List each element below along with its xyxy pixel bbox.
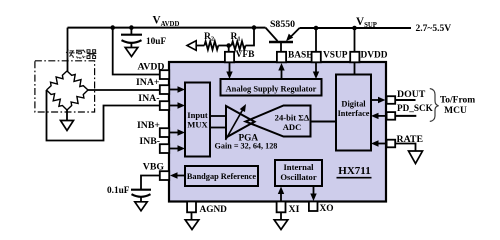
svg-text:VSUP: VSUP xyxy=(323,50,348,60)
svg-text:Gain = 32, 64, 128: Gain = 32, 64, 128 xyxy=(215,142,278,151)
svg-text:VFB: VFB xyxy=(236,50,256,60)
svg-text:Input: Input xyxy=(187,110,208,120)
wire bridge right node to INA+ xyxy=(88,89,160,91)
wire MUX to PGA (lower) xyxy=(210,127,226,129)
pin DOUT xyxy=(387,96,396,104)
pin INA+ xyxy=(160,85,169,94)
wire DOUT external xyxy=(395,99,415,101)
label sensor (chuan gan qi) xyxy=(66,50,68,59)
svg-text:0.1uF: 0.1uF xyxy=(107,186,130,196)
pin RATE xyxy=(387,140,396,148)
pin XI xyxy=(277,202,286,213)
wire rail to AVDD pin xyxy=(113,28,160,75)
arrow VSUP pin to regulator xyxy=(315,62,317,74)
svg-text:MCU: MCU xyxy=(444,106,467,116)
transistor Q1 base bar xyxy=(269,41,293,44)
Input MUX block xyxy=(185,83,210,157)
wire arrow to R2 xyxy=(196,45,204,47)
svg-text:XI: XI xyxy=(289,204,300,215)
resistor R2 xyxy=(204,41,218,49)
wire RATE external xyxy=(395,144,415,152)
wire base to BASE pin xyxy=(280,43,282,52)
arrow INA+ into MUX xyxy=(169,89,180,91)
svg-text:AVDD: AVDD xyxy=(137,61,164,72)
pin DVDD xyxy=(350,52,359,63)
PGA amplifier triangle xyxy=(226,106,255,138)
wire ADC to Digital Interface xyxy=(311,121,337,123)
junction rail/AVDD xyxy=(110,25,115,30)
svg-text:HX711: HX711 xyxy=(338,165,370,177)
svg-text:DVDD: DVDD xyxy=(361,50,388,60)
junction rail/DVDD xyxy=(352,26,357,31)
XI ground stub xyxy=(280,212,282,220)
pin VSUP xyxy=(312,52,321,63)
svg-text:S8550: S8550 xyxy=(270,19,295,30)
svg-text:24-bit ΣΔ: 24-bit ΣΔ xyxy=(275,112,310,122)
arrow INB+ into MUX xyxy=(169,132,180,134)
node VAVDD rail xyxy=(68,27,266,29)
wire DVDD pin to Digital Interface xyxy=(354,62,356,75)
node VSUP rail xyxy=(300,27,412,29)
svg-text:To/From: To/From xyxy=(440,95,475,105)
arrow INB- into MUX xyxy=(169,148,180,150)
junction rail/R1 xyxy=(252,25,257,30)
junction rail/cap xyxy=(129,25,134,30)
svg-text:INB-: INB- xyxy=(139,136,160,147)
ground (AGND) xyxy=(185,220,199,230)
svg-text:MUX: MUX xyxy=(187,120,208,130)
arrow INA- into MUX xyxy=(169,105,180,107)
svg-text:INA+: INA+ xyxy=(136,77,160,88)
pin VFB xyxy=(225,52,234,63)
Analog Supply Regulator block xyxy=(221,79,322,96)
bridge resistor bottom-right xyxy=(67,90,88,110)
svg-text:Bandgap Reference: Bandgap Reference xyxy=(187,172,257,181)
bridge resistor top-left xyxy=(47,71,68,90)
svg-text:Oscillator: Oscillator xyxy=(280,172,316,182)
pin PD_SCK xyxy=(387,112,396,120)
Internal Oscillator block xyxy=(275,160,322,186)
svg-text:2.7~5.5V: 2.7~5.5V xyxy=(416,24,452,34)
svg-text:XO: XO xyxy=(320,204,334,214)
pin VBG xyxy=(160,171,169,180)
arrow DI to DOUT pin xyxy=(371,99,380,101)
op-amp U1 HX711 chip body xyxy=(169,62,386,202)
arrow XI pin to oscillator xyxy=(280,192,282,202)
capacitor C2 0.1uF xyxy=(131,189,151,191)
wire rail to DVDD pin xyxy=(354,28,356,52)
bridge ground stub xyxy=(66,110,68,121)
sensor enclosure (dash-dot) xyxy=(35,61,95,112)
capacitor C1 10uF xyxy=(130,28,132,35)
arrow PD_SCK pin to DI xyxy=(377,115,386,117)
resistor R1 xyxy=(232,41,246,49)
svg-text:BASE: BASE xyxy=(288,50,313,60)
wire bridge top to rail xyxy=(67,28,69,72)
AGND ground stub xyxy=(191,212,193,220)
ground (bridge) xyxy=(61,121,74,131)
wire R1 to rail riser xyxy=(246,28,255,46)
brace to MCU xyxy=(430,89,439,122)
wire rail to VSUP pin xyxy=(315,28,317,52)
svg-text:Analog Supply Regulator: Analog Supply Regulator xyxy=(226,84,317,93)
svg-text:ADC: ADC xyxy=(283,122,302,132)
svg-text:Digital: Digital xyxy=(341,100,366,109)
wire bridge left node to INA- (loop) xyxy=(47,90,160,141)
arrow oscillator to XO pin xyxy=(313,186,315,196)
svg-text:INB+: INB+ xyxy=(137,120,160,131)
pin INB+ xyxy=(160,128,169,137)
bridge resistor top-right xyxy=(67,71,88,90)
wire R2 to R1 xyxy=(218,45,231,47)
svg-text:VBG: VBG xyxy=(143,162,165,173)
wire MUX to PGA (upper) xyxy=(210,115,226,117)
svg-text:Interface: Interface xyxy=(338,109,370,118)
pin XO xyxy=(309,202,318,212)
arrow bandgap to VBG pin xyxy=(177,175,186,177)
svg-text:PD_SCK: PD_SCK xyxy=(397,103,434,113)
pin AVDD xyxy=(160,70,169,79)
Digital Interface block xyxy=(336,75,371,151)
pin INB- xyxy=(160,144,169,153)
transistor Q1 emitter with arrow xyxy=(290,28,300,38)
Bandgap Reference block xyxy=(185,166,258,186)
arrow VFB pin to regulator xyxy=(229,62,231,74)
wire PD_SCK external xyxy=(395,115,416,117)
svg-text:Internal: Internal xyxy=(283,162,314,172)
arrow RATE pin to DI xyxy=(377,143,386,145)
junction rail/VSUP xyxy=(314,26,319,31)
wire VBG pin to capacitor xyxy=(141,176,160,190)
ground (XI) xyxy=(274,220,288,230)
24-bit Sigma-Delta ADC block xyxy=(246,106,311,137)
junction VFB node xyxy=(226,43,231,48)
pin AGND xyxy=(187,202,196,213)
pin INA- xyxy=(160,101,169,110)
PGA gain arrow xyxy=(226,109,244,140)
arrow regulator to BASE pin xyxy=(281,69,283,80)
svg-text:DOUT: DOUT xyxy=(397,89,426,100)
transistor Q1 collector xyxy=(266,28,278,41)
ground (RATE) xyxy=(409,151,423,164)
svg-text:AGND: AGND xyxy=(200,205,228,215)
svg-text:INA-: INA- xyxy=(138,93,159,104)
pin BASE xyxy=(277,52,286,63)
svg-text:10uF: 10uF xyxy=(146,37,166,47)
bridge resistor bottom-left xyxy=(47,90,68,110)
arrow-end of R2 (to AGND plane) xyxy=(187,41,196,51)
wire VFB node to pin xyxy=(228,46,230,53)
